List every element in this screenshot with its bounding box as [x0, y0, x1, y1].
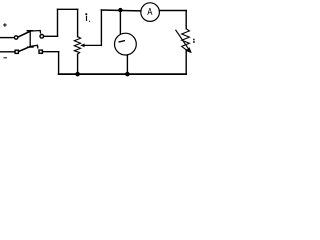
wire (right branch bottom lead to bottom rail)	[185, 50, 187, 74]
switch S1 pole 1 contact tab	[30, 31, 40, 34]
node - (negative supply terminal mark)	[4, 57, 6, 59]
switch S1 gang tie-bar	[27, 31, 33, 47]
resistor R1 rheostat zigzag	[74, 37, 80, 55]
wire (negative lead from left edge to switch pole 2)	[0, 51, 15, 53]
switch S1 pole 2 blade	[20, 47, 31, 52]
wire (rheostat R1 bottom lead to bottom rail)	[77, 54, 79, 74]
wire (switch pole 2 to bottom-left corner)	[43, 51, 59, 53]
ammeter A body	[141, 3, 160, 22]
meter V needle mark (small dash inside)	[119, 41, 124, 42]
wire (switch pole 1 to top-left corner riser)	[44, 35, 58, 37]
wire (left loop drop to bottom rail)	[58, 52, 60, 74]
wiper arrow of rheostat R1 (tap to second loop)	[84, 44, 101, 46]
terminal circle (switch S1 pole 1 left contact)	[14, 36, 17, 39]
meter V body (circle instrument in middle branch)	[115, 33, 137, 55]
switch S1 pole 1 blade	[18, 31, 30, 37]
resistor R2 zigzag (variable resistor right branch)	[182, 29, 190, 50]
junction (voltmeter branch on top rail)	[118, 8, 122, 12]
wire (right loop top rail right of ammeter)	[160, 10, 187, 12]
label i1 (current label near R1 top)	[85, 13, 90, 22]
wire (rheostat R1 top lead from top rail)	[77, 9, 79, 36]
terminal square (switch S1 pole 2 left contact)	[15, 50, 18, 53]
svg-text:A: A	[147, 7, 152, 18]
wire (right branch top lead)	[185, 11, 187, 29]
wire (right loop top rail left of ammeter)	[101, 9, 140, 12]
wire (meter V bottom lead to bottom rail)	[126, 55, 128, 74]
wire (drop from top rail to meter V)	[119, 10, 121, 33]
terminal circle (switch S1 pole 1 right contact)	[40, 35, 44, 39]
variable resistor R2 arrow	[176, 30, 189, 49]
terminal square (switch S1 pole 2 right contact)	[39, 50, 42, 53]
label i2 (near R2 right side)	[193, 39, 194, 43]
wire (wiper riser up to right loop top rail)	[100, 10, 102, 45]
switch S1 pole 2 contact tab	[30, 45, 38, 48]
wire (left loop riser up to top rail)	[57, 9, 59, 36]
junction (R1 bottom on bottom rail)	[75, 72, 80, 77]
junction (meter V branch on bottom rail)	[125, 72, 130, 77]
wire (left loop top rail)	[58, 8, 78, 10]
wire (positive lead from left edge to switch pole 1)	[0, 37, 14, 39]
node + (positive supply terminal mark)	[4, 24, 7, 27]
wire (bottom rail shared by both loops)	[59, 73, 187, 75]
